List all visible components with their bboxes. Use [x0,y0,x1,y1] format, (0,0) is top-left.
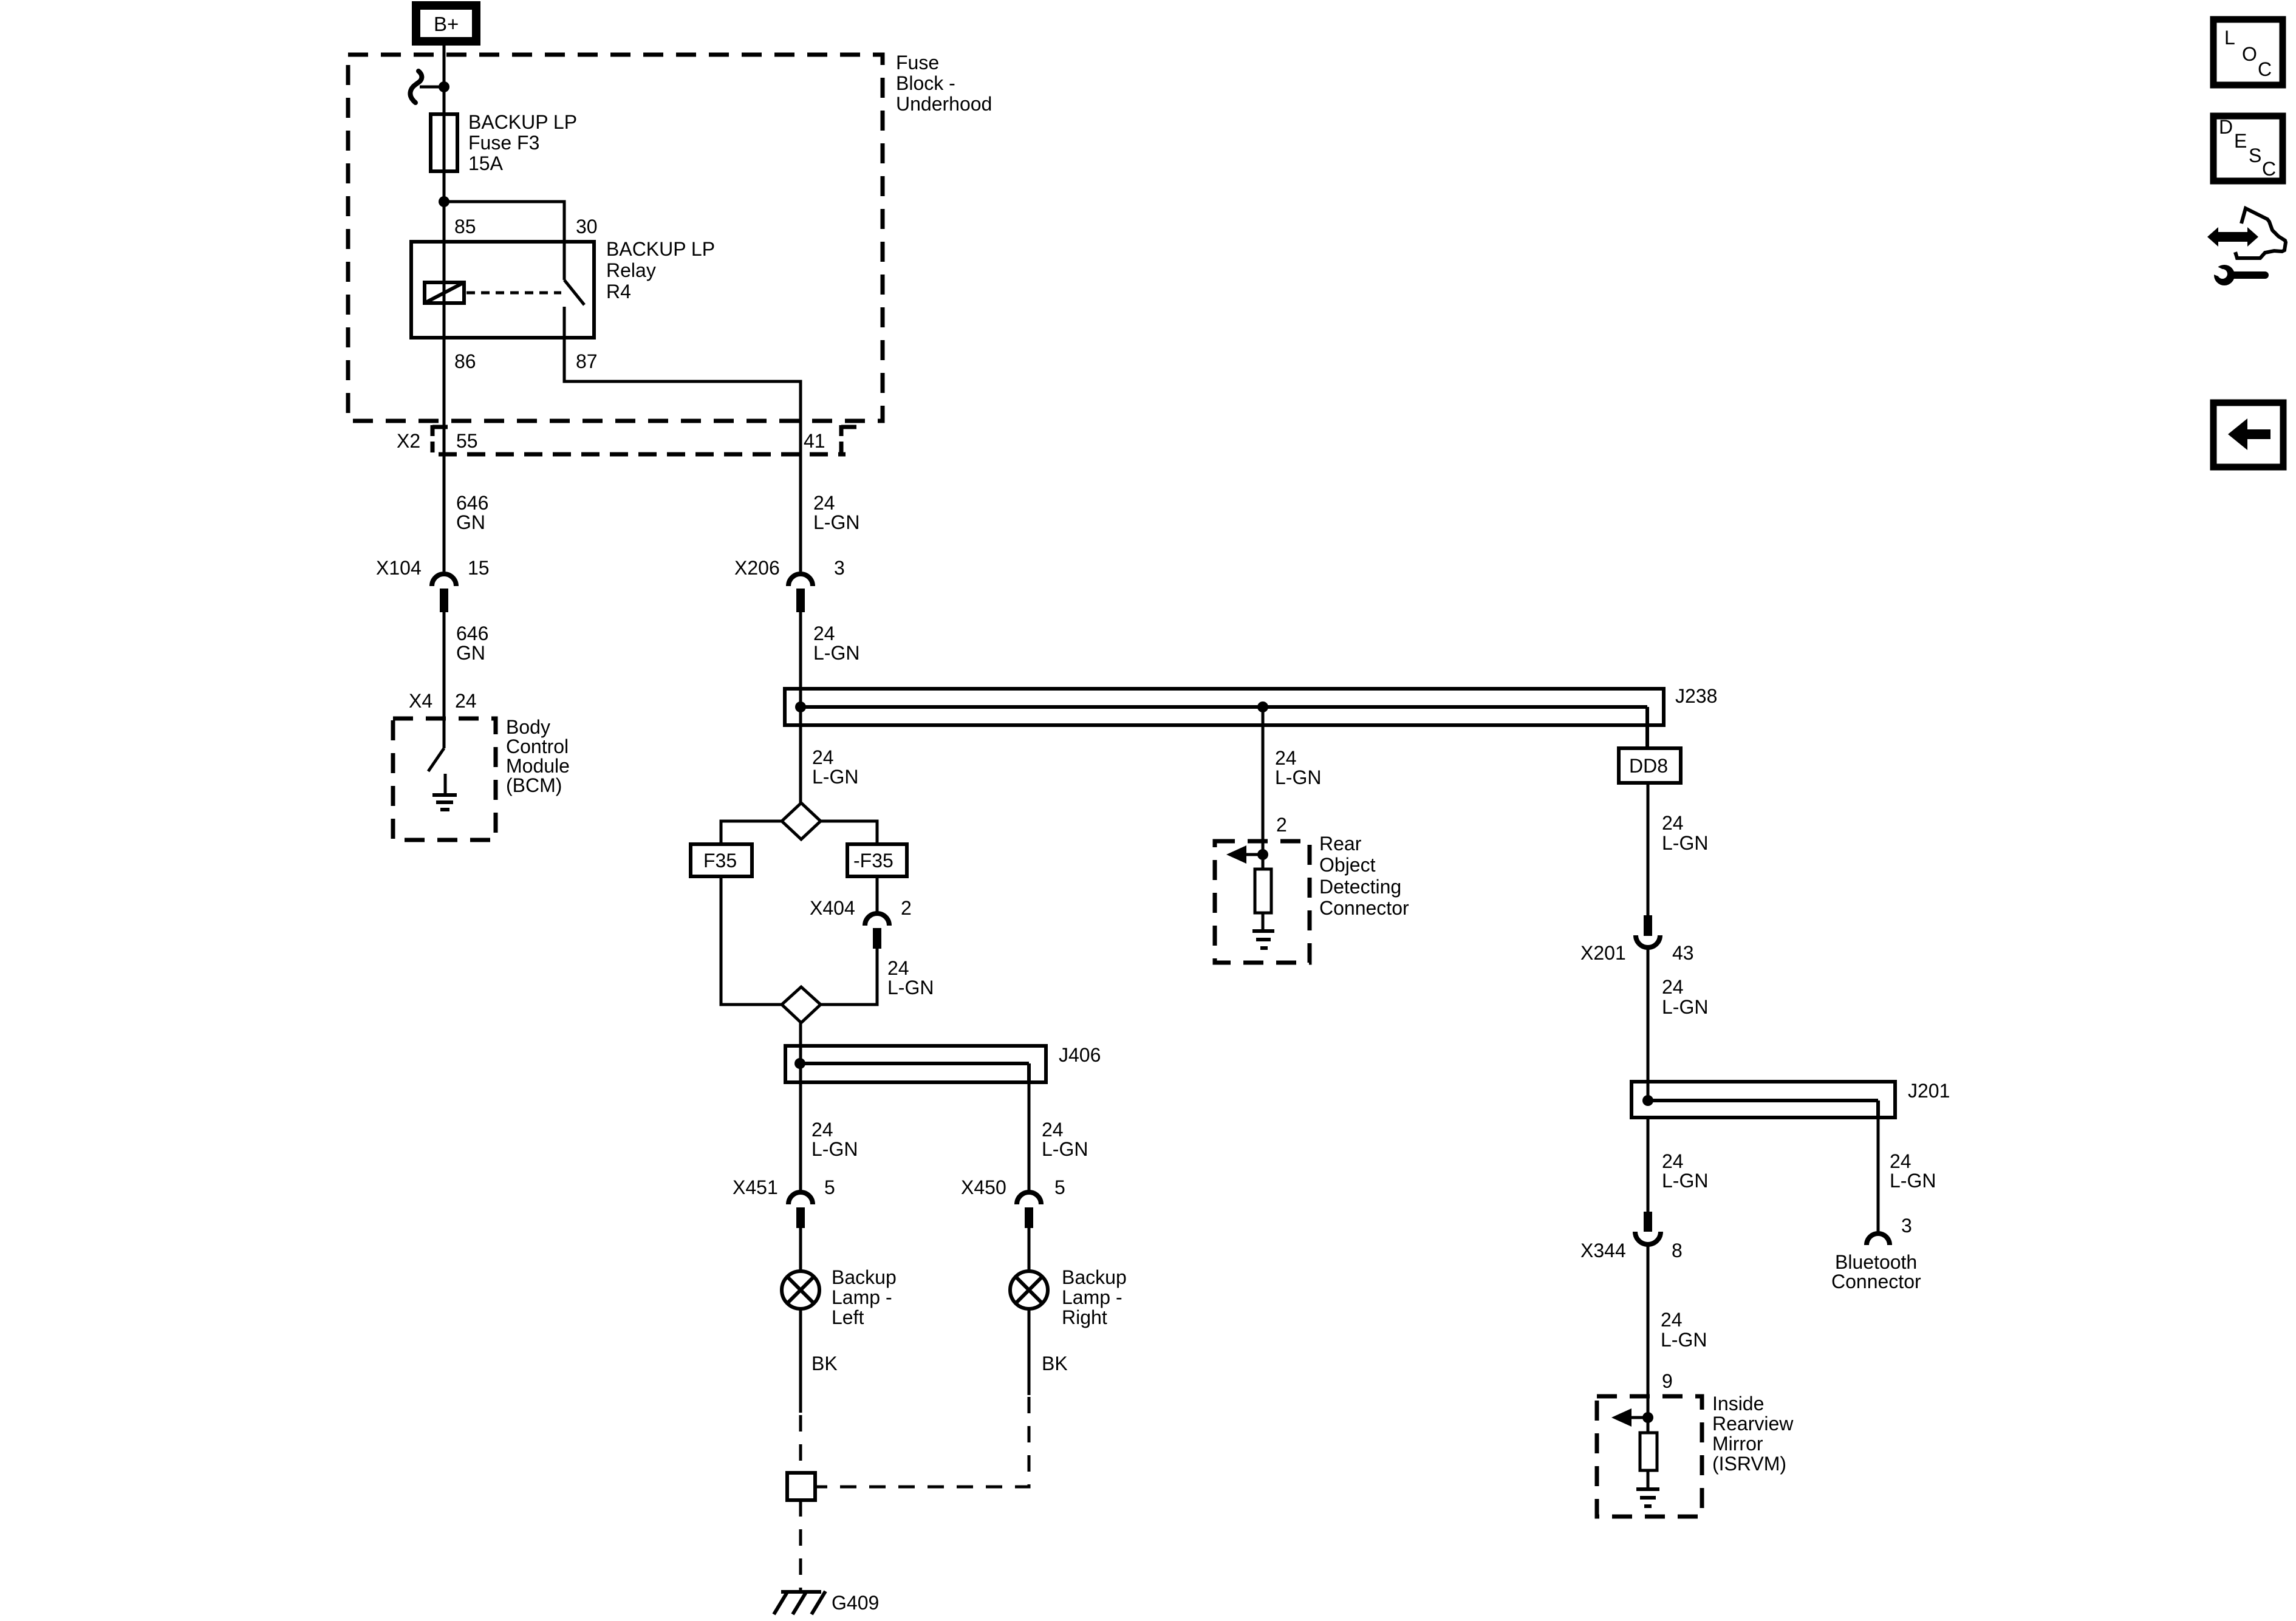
wire below left lamp BK [799,1309,802,1413]
wire diamond to -F35 [821,821,877,844]
svg-text:X104: X104 [376,557,422,579]
svg-text:15: 15 [468,557,490,579]
svg-text:X201: X201 [1580,942,1626,964]
svg-text:D: D [2219,116,2233,138]
svg-text:Object: Object [1319,854,1376,876]
svg-text:L-GN: L-GN [1662,832,1708,854]
svg-text:Lamp -: Lamp - [832,1286,892,1308]
ground junction square [787,1473,815,1500]
wire -F35 to X404 [876,876,879,912]
svg-text:X404: X404 [810,897,855,919]
svg-text:Inside: Inside [1712,1393,1764,1415]
node ISRVM [1642,1412,1653,1423]
backup lamp left label [832,1266,897,1328]
ISRVM label [1712,1393,1794,1475]
svg-text:DD8: DD8 [1629,755,1668,777]
svg-text:24: 24 [812,746,834,768]
wire B+ to fuse and junction [443,46,446,572]
Bluetooth connector arc [1867,1234,1890,1245]
svg-text:Connector: Connector [1319,897,1409,919]
relay coil [425,282,464,303]
wire X104 to BCM [443,612,446,748]
wire label 24 L-GN ROD [1275,747,1321,788]
svg-text:41: 41 [804,430,825,452]
backup lamp right [1010,1271,1048,1309]
svg-text:L-GN: L-GN [1275,766,1321,788]
svg-text:30: 30 [576,216,598,237]
fuse box -F35 [847,844,907,876]
inside rearview mirror dashed box [1597,1396,1702,1517]
svg-text:C: C [2262,158,2276,180]
wire label 24 L-GN above top diamond [812,746,858,788]
svg-text:Rear: Rear [1319,833,1362,855]
connector X451 [788,1192,813,1228]
wire label 24 L-GN Bluetooth [1890,1150,1936,1192]
node J238 left [795,701,806,712]
fuse block underhood dashed box [348,55,883,421]
top splice diamond [782,803,821,839]
connector X404 [865,913,889,949]
svg-text:Module: Module [506,755,570,777]
rear object detecting connector dashed box [1215,841,1310,963]
DD8 box [1619,748,1681,783]
splice bus J406 [785,1046,1046,1082]
ground G409 [774,1591,825,1614]
splice bus J201 [1631,1082,1895,1118]
wire X206 to J238 [799,612,802,803]
svg-text:X4: X4 [409,690,432,712]
connector X2 brackets [432,425,856,457]
svg-text:J201: J201 [1908,1080,1950,1102]
svg-text:B+: B+ [434,13,459,35]
wire X451 to left lamp [799,1228,802,1271]
wire label 24 L-GN DD8 [1662,812,1708,854]
wire X450 to right lamp [1028,1228,1031,1271]
svg-text:Backup: Backup [832,1266,897,1288]
ROD ground [1252,913,1274,948]
bottom splice diamond [782,987,821,1023]
wire label 24 L-GN X201 [1662,976,1708,1018]
svg-text:Mirror: Mirror [1712,1433,1763,1455]
wire label 24 L-GN right lamp [1042,1119,1088,1160]
power terminal B+ [412,1,480,46]
svg-text:F35: F35 [703,850,737,872]
ISRVM resistor element [1640,1433,1657,1470]
svg-text:Fuse: Fuse [896,52,939,73]
svg-text:L-GN: L-GN [1042,1138,1088,1160]
svg-text:(BCM): (BCM) [506,774,562,796]
svg-text:X206: X206 [734,557,780,579]
node below fuse [439,196,449,207]
fuse block label [896,52,992,115]
svg-text:J406: J406 [1059,1044,1101,1066]
svg-text:Bluetooth: Bluetooth [1835,1251,1917,1273]
svg-text:Right: Right [1062,1306,1107,1328]
svg-text:24: 24 [811,1119,833,1141]
svg-text:X344: X344 [1580,1240,1626,1261]
svg-text:X2: X2 [397,430,420,452]
svg-text:5: 5 [824,1176,835,1198]
double arrow icon [2207,227,2258,247]
wire junction to relay pin 30 [444,202,564,242]
svg-text:L-GN: L-GN [813,642,859,664]
svg-text:Block -: Block - [896,72,955,94]
wire label 646 GN upper [456,492,488,533]
svg-text:5: 5 [1054,1176,1065,1198]
svg-text:24: 24 [1661,1309,1683,1331]
svg-text:L-GN: L-GN [813,511,859,533]
svg-text:L-GN: L-GN [887,977,934,998]
splice bus J238 [785,689,1664,748]
fuse F3 label [468,111,577,174]
back arrow icon box [2213,403,2283,467]
svg-text:24: 24 [1662,1150,1684,1172]
dashed ground wire left [799,1415,802,1473]
svg-text:Relay: Relay [606,259,656,281]
svg-text:Lamp -: Lamp - [1062,1286,1122,1308]
wire J201 to Bluetooth connector [1877,1118,1880,1232]
node J406 [794,1058,805,1069]
svg-text:24: 24 [1890,1150,1912,1172]
svg-text:L-GN: L-GN [1890,1170,1936,1192]
svg-text:87: 87 [576,350,598,372]
wire X201 to J201 [1647,949,1650,1101]
svg-text:24: 24 [887,957,909,979]
wire diamond to J406 [799,1023,802,1082]
wire X404 to bottom diamond [821,949,877,1005]
svg-text:Connector: Connector [1831,1271,1921,1292]
svg-text:Left: Left [832,1306,864,1328]
svg-text:55: 55 [456,430,478,452]
svg-text:X450: X450 [961,1176,1006,1198]
svg-text:GN: GN [456,511,485,533]
svg-text:24: 24 [1275,747,1297,769]
svg-text:L-GN: L-GN [1662,1170,1708,1192]
svg-text:Control: Control [506,735,569,757]
relay switch [564,242,584,338]
svg-text:8: 8 [1672,1240,1683,1261]
svg-text:24: 24 [1662,976,1684,998]
ROD arrow [1226,845,1263,864]
svg-text:Backup: Backup [1062,1266,1127,1288]
dashed wire square to G409 [799,1500,802,1592]
dashed ground wire right [815,1397,1029,1487]
svg-text:3: 3 [1901,1215,1912,1237]
svg-text:Fuse F3: Fuse F3 [468,132,539,154]
svg-text:L: L [2224,27,2235,49]
wire label 24 L-GN X404 [887,957,934,998]
svg-text:E: E [2234,130,2247,152]
BCM dashed box [393,718,496,840]
wire label 24 L-GN left lamp [811,1119,858,1160]
svg-text:BACKUP LP: BACKUP LP [468,111,577,133]
svg-text:Detecting: Detecting [1319,876,1401,898]
wire label 24 L-GN X206 lower [813,623,859,664]
LOC icon box [2213,19,2283,85]
node J238 middle [1257,701,1268,712]
vehicle outline icon [2234,208,2286,258]
wrench icon [2209,264,2265,285]
BCM ground [432,774,457,810]
svg-text:2: 2 [901,897,912,919]
svg-text:Rearview: Rearview [1712,1413,1794,1435]
backup lamp left [782,1271,819,1309]
node at clip [439,81,449,92]
svg-text:86: 86 [454,350,476,372]
svg-text:9: 9 [1662,1370,1673,1392]
node ROD [1257,849,1268,860]
wire below right lamp BK [1028,1309,1031,1395]
svg-text:GN: GN [456,642,485,664]
connector X104 [432,574,456,612]
wire X344 to ISRVM [1647,1246,1650,1433]
svg-text:S: S [2249,145,2261,166]
svg-text:85: 85 [454,216,476,237]
clip wire [420,86,444,89]
wire pin 87 to X2 pin 41 [564,338,801,572]
svg-text:C: C [2258,58,2272,80]
wire J238 middle to ROD connector [1262,707,1265,869]
ROD resistor element [1255,869,1271,913]
svg-text:R4: R4 [606,281,631,302]
svg-text:G409: G409 [832,1592,879,1614]
connector X450 [1017,1192,1041,1228]
wire diamond to F35 [721,821,782,844]
svg-text:24: 24 [455,690,477,712]
svg-text:-F35: -F35 [853,850,893,872]
svg-text:O: O [2242,43,2257,65]
wire J406 to X451 [799,1082,802,1191]
ISRVM arrow [1611,1408,1648,1427]
Bluetooth connector label [1831,1251,1921,1292]
wire label 24 L-GN ISRVM lower [1661,1309,1707,1351]
node J201 [1642,1095,1653,1106]
connector X206 [788,574,813,612]
DESC icon box [2213,116,2283,181]
svg-text:J238: J238 [1675,685,1717,707]
wire label 24 L-GN X206 upper [813,492,859,533]
fuse box F35 [691,844,752,876]
svg-text:646: 646 [456,623,488,644]
relay R4 box [411,242,594,338]
svg-text:43: 43 [1672,942,1694,964]
BCM switch blade [428,748,444,771]
wire label 24 L-GN ISRVM upper [1662,1150,1708,1192]
svg-text:L-GN: L-GN [1661,1329,1707,1351]
wire J406 to X450 [1028,1082,1031,1191]
backup lamp right label [1062,1266,1127,1328]
svg-text:L-GN: L-GN [811,1138,858,1160]
BCM label [506,716,570,796]
svg-text:15A: 15A [468,152,504,174]
svg-text:BK: BK [1042,1353,1068,1374]
svg-text:24: 24 [813,623,835,644]
wire F35 to bottom diamond [721,876,782,1005]
wire label 646 GN lower [456,623,488,664]
svg-text:646: 646 [456,492,488,514]
ROD label [1319,833,1409,919]
wire J201 to X344 [1647,1118,1650,1212]
ISRVM ground [1636,1470,1659,1506]
relay label [606,238,715,302]
svg-text:BK: BK [811,1353,838,1374]
svg-text:24: 24 [1042,1119,1064,1141]
clip symbol [410,71,422,103]
svg-text:Body: Body [506,716,550,738]
relay actuation dashed line [466,292,561,295]
svg-text:24: 24 [1662,812,1684,834]
svg-text:Underhood: Underhood [896,93,992,115]
svg-text:X451: X451 [733,1176,778,1198]
connector X201 [1636,915,1660,947]
svg-text:BACKUP LP: BACKUP LP [606,238,715,260]
wire DD8 to X201 [1647,783,1650,915]
fuse F3 [431,114,457,171]
svg-text:2: 2 [1276,814,1287,836]
svg-text:3: 3 [834,557,845,579]
svg-text:L-GN: L-GN [1662,996,1708,1018]
svg-text:24: 24 [813,492,835,514]
connector X344 [1635,1212,1661,1244]
svg-text:L-GN: L-GN [812,766,858,788]
svg-text:(ISRVM): (ISRVM) [1712,1453,1786,1475]
